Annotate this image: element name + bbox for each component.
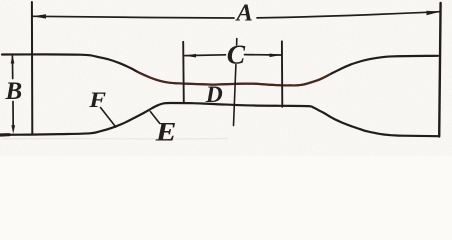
faint smudge line near bottom	[2, 138, 228, 141]
right edge of specimen / extension line for A	[439, 3, 440, 137]
arrowhead A left	[32, 14, 46, 18]
dimension line A (right part)	[257, 12, 440, 18]
C right extension line	[281, 41, 283, 107]
red gauge line (top edge of reduced section)	[138, 72, 330, 85]
dimension line C (left part)	[185, 54, 226, 57]
thick ink blob bottom-left edge	[0, 133, 9, 137]
arrowhead C left	[185, 54, 196, 58]
svg-text:D: D	[205, 82, 223, 108]
arrowhead B top	[11, 55, 15, 64]
specimen outline: top edge with shoulders	[2, 54, 438, 85]
C left extension line	[182, 42, 185, 103]
specimen outline: bottom edge with fillets	[0, 103, 438, 136]
dimension line A (left part)	[33, 16, 234, 18]
leader line for F	[101, 108, 116, 128]
svg-text:F: F	[88, 88, 106, 112]
leader line for E	[150, 112, 159, 124]
svg-text:B: B	[5, 78, 23, 105]
svg-text:A: A	[235, 0, 253, 27]
svg-text:E: E	[155, 118, 177, 147]
dimension line C (right part)	[245, 54, 281, 56]
dimension line B shaft	[11, 56, 13, 79]
centerline through gauge section	[236, 39, 238, 46]
svg-text:C: C	[227, 39, 246, 70]
arrowhead B bottom	[11, 125, 15, 134]
left extension line for A	[31, 2, 33, 134]
paper background	[0, 0, 452, 156]
arrowhead C right	[270, 54, 282, 58]
arrowhead A right	[427, 11, 441, 15]
